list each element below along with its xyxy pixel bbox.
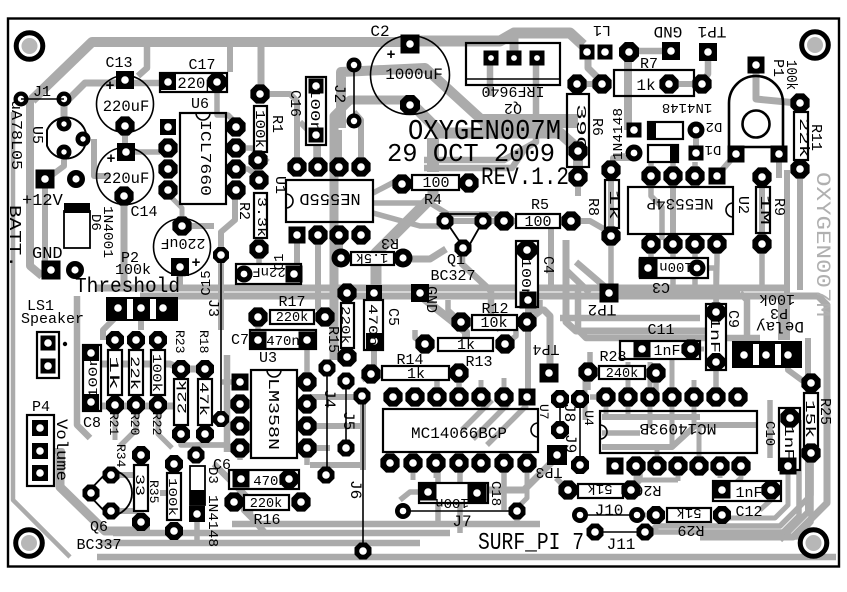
svg-text:R11: R11: [807, 124, 824, 151]
wire: [177, 271, 183, 287]
wire: [525, 304, 531, 395]
svg-text:100k: 100k: [782, 60, 799, 90]
power +12V pads: [36, 170, 86, 189]
wire: [435, 464, 441, 524]
transistor Q2 IRF9640: [466, 43, 560, 116]
wire: [304, 448, 310, 465]
wire: [780, 338, 808, 540]
svg-text:REV.1.2: REV.1.2: [481, 163, 569, 192]
test point TP1: [698, 22, 727, 61]
wire: [122, 126, 128, 152]
resistor R7: [567, 56, 711, 96]
wire: [776, 154, 782, 178]
resistor R14: [361, 352, 468, 384]
test point TP3: [535, 445, 567, 480]
capacitor C4: [516, 240, 556, 309]
wire: [587, 352, 593, 370]
svg-text:C8: C8: [83, 415, 101, 432]
wire: [487, 405, 527, 445]
svg-text:Q6: Q6: [90, 519, 108, 536]
IC U3 LM358N: [230, 350, 316, 458]
resistor R11: [790, 93, 824, 178]
wire: [760, 490, 771, 510]
svg-text:100n: 100n: [659, 258, 693, 274]
svg-text:1N4001: 1N4001: [99, 206, 115, 258]
svg-text:TP1: TP1: [698, 22, 727, 40]
wire: [113, 530, 450, 537]
svg-text:SURF_PI 7: SURF_PI 7: [478, 530, 584, 557]
wire: [479, 380, 484, 395]
resistor R4: [392, 173, 478, 209]
svg-text:TP2: TP2: [588, 300, 617, 318]
wire: [437, 133, 578, 149]
wire: [113, 412, 118, 440]
wire: [692, 400, 697, 424]
wire: [713, 362, 719, 390]
resistor R21: [106, 331, 124, 436]
svg-text:Speaker: Speaker: [21, 311, 84, 328]
resistor R5: [494, 197, 580, 231]
jumper J2: [330, 58, 362, 129]
wire: [502, 378, 507, 395]
svg-text:J10: J10: [595, 502, 624, 520]
wire: [670, 360, 675, 445]
wire: [97, 364, 205, 369]
svg-text:C11: C11: [647, 322, 674, 339]
svg-text:3.3k: 3.3k: [254, 197, 269, 237]
svg-text:GND: GND: [422, 286, 439, 313]
svg-text:MC14093B: MC14093B: [640, 419, 717, 437]
svg-text:U3: U3: [259, 350, 277, 367]
resistor R9: [752, 167, 787, 253]
wire: [718, 466, 723, 478]
wire: [767, 400, 773, 458]
svg-text:51k: 51k: [587, 480, 612, 496]
wire: [307, 423, 360, 429]
jumper J6: [346, 388, 372, 560]
wire: [336, 130, 342, 165]
wire: [138, 522, 144, 533]
svg-text:R29: R29: [677, 521, 704, 538]
node GND (top): [654, 22, 683, 60]
wire: [473, 403, 509, 439]
resistor R28: [578, 349, 665, 383]
svg-text:1k: 1k: [407, 366, 425, 383]
svg-text:100: 100: [524, 214, 551, 231]
svg-text:1.5k: 1.5k: [356, 249, 388, 264]
wire: [670, 160, 676, 176]
wire: [412, 249, 446, 259]
wire: [585, 373, 591, 390]
resistor R34 label: [113, 444, 128, 468]
regulator U5 value uA78L05: [7, 100, 24, 170]
svg-text:J11: J11: [607, 536, 636, 554]
wire: [697, 268, 716, 290]
wire: [138, 40, 147, 76]
wire: [648, 160, 654, 176]
jumper J3: [204, 247, 229, 427]
wire: [609, 290, 740, 297]
capacitor C3: [639, 258, 709, 295]
jumper J11: [587, 524, 654, 555]
wire: [577, 81, 605, 87]
transistor Q6 BC337: [76, 467, 132, 555]
svg-text:R1: R1: [268, 115, 285, 133]
svg-text:1N4148: 1N4148: [204, 495, 220, 547]
wire: [77, 296, 90, 438]
wire: [602, 425, 756, 447]
svg-text:uA78L05: uA78L05: [7, 100, 24, 170]
capacitor C6: [213, 457, 299, 490]
svg-text:R20: R20: [127, 412, 142, 435]
wire: [232, 521, 540, 528]
wire: [573, 151, 583, 177]
svg-text:1N4148: 1N4148: [662, 99, 712, 115]
wire: [52, 152, 64, 175]
rev REV.1.2: [481, 163, 569, 192]
svg-text:J6: J6: [346, 480, 364, 499]
wire: [256, 249, 262, 266]
resistor R1: [248, 84, 285, 169]
wire: [648, 362, 653, 390]
resistor R29 (51k): [647, 504, 731, 538]
wire: [415, 330, 425, 344]
wire: [487, 62, 494, 96]
wire: [400, 492, 428, 500]
diode label 1N4148: [611, 108, 627, 160]
wire: [48, 451, 62, 465]
wire: [722, 154, 736, 180]
capacitor C1: [236, 254, 303, 284]
wire: [64, 83, 125, 120]
resistor R15: [324, 283, 357, 366]
resistor R23: [172, 330, 190, 443]
capacitor C12: [713, 480, 781, 521]
diode D6 1N4001: [64, 203, 115, 258]
svg-text:C3: C3: [652, 278, 670, 295]
wire: [91, 403, 178, 410]
wire: [517, 464, 527, 508]
capacitor C2: [370, 23, 449, 115]
wire: [310, 394, 362, 400]
wire: [171, 531, 177, 543]
jumper J10: [572, 502, 645, 523]
wire: [255, 317, 261, 338]
title SURF_PI 7: [478, 530, 584, 557]
svg-text:C12: C12: [735, 504, 762, 521]
svg-text:220k: 220k: [276, 311, 308, 326]
wire: [566, 270, 590, 293]
wire: [692, 162, 698, 176]
wire: [94, 139, 110, 176]
wire: [30, 97, 42, 276]
resistor R35 (33): [132, 446, 161, 531]
capacitor C8: [83, 345, 101, 432]
wire: [583, 380, 588, 420]
wire: [566, 240, 716, 356]
wire: [424, 150, 524, 168]
wire: [604, 400, 609, 420]
svg-text:J7: J7: [452, 513, 471, 531]
wire: [135, 149, 160, 155]
wire: [236, 148, 268, 162]
svg-text:1nF: 1nF: [780, 425, 795, 460]
wire: [656, 453, 811, 526]
svg-text:1k: 1k: [605, 190, 621, 220]
svg-text:U1: U1: [271, 176, 288, 194]
svg-text:+: +: [105, 78, 114, 95]
svg-text:MC14066BCP: MC14066BCP: [411, 425, 507, 443]
capacitor C5: [364, 285, 401, 350]
svg-text:J1: J1: [33, 84, 51, 101]
wire: [510, 36, 519, 59]
wire: [60, 450, 150, 531]
wire: [631, 466, 640, 490]
wire: [602, 430, 640, 436]
svg-text:+: +: [386, 47, 395, 64]
wire: [376, 190, 433, 287]
svg-text:R28: R28: [599, 349, 626, 366]
svg-text:1k: 1k: [457, 337, 475, 354]
wire: [423, 298, 466, 344]
svg-text:J4: J4: [320, 389, 338, 408]
wire: [588, 52, 600, 80]
capacitor C14: [97, 143, 158, 221]
label P2 100k Threshold: [75, 250, 180, 299]
wire: [505, 328, 516, 344]
wire: [111, 462, 141, 475]
wire: [138, 315, 144, 330]
wire: [371, 344, 377, 370]
wire: [181, 434, 227, 445]
wire: [548, 228, 554, 290]
test point TP4: [532, 340, 559, 383]
svg-text:R18: R18: [196, 330, 211, 353]
svg-text:C18: C18: [487, 481, 503, 506]
resistor R17: [248, 294, 334, 327]
wire: [121, 196, 128, 288]
svg-text:15k: 15k: [801, 400, 817, 438]
wire: [227, 42, 233, 72]
mounting hole 3: [16, 530, 43, 557]
capacitor C11: [620, 322, 701, 360]
wire: [527, 300, 540, 322]
svg-text:TP3: TP3: [535, 463, 562, 480]
capacitor C16: [286, 77, 326, 145]
wire: [170, 196, 182, 226]
svg-text:R13: R13: [465, 354, 492, 371]
wire: [373, 180, 402, 193]
svg-text:C1: C1: [272, 254, 288, 271]
svg-text:R4: R4: [424, 192, 442, 209]
wire: [608, 176, 614, 232]
wire: [556, 478, 568, 490]
svg-text:47k: 47k: [196, 382, 211, 416]
IC U6 ICL7660: [158, 96, 245, 204]
resistor R3: [332, 234, 413, 268]
svg-text:LM358N: LM358N: [264, 378, 281, 450]
wire: [676, 466, 681, 481]
IC U4 MC14093B: [581, 387, 757, 475]
mounting hole 1: [16, 33, 43, 60]
resistor R22: [149, 331, 167, 435]
wire: [32, 42, 415, 100]
wire: [13, 112, 70, 557]
svg-text:100n: 100n: [86, 356, 101, 398]
svg-text:C15: C15: [199, 270, 215, 295]
wire: [304, 342, 310, 378]
wire: [626, 362, 631, 415]
wire: [224, 355, 231, 452]
svg-text:1N4148: 1N4148: [611, 108, 627, 160]
svg-text:R23: R23: [172, 330, 187, 353]
wire: [217, 86, 236, 123]
wire: [360, 397, 366, 470]
wire: [445, 218, 516, 224]
wire: [42, 188, 48, 262]
IC U2 NE5534P: [628, 166, 751, 253]
wire: [373, 213, 440, 226]
wire: [294, 240, 300, 266]
svg-text:U4: U4: [581, 410, 596, 426]
svg-text:1nF: 1nF: [735, 485, 762, 502]
svg-text:U2: U2: [734, 196, 751, 214]
wire: [120, 412, 136, 446]
svg-text:R22: R22: [149, 412, 164, 435]
jumper J5: [338, 373, 358, 457]
wire: [265, 94, 297, 165]
wire: [89, 357, 94, 398]
wire: [784, 170, 790, 340]
diode D2 1N4148: [627, 99, 723, 139]
connector P4 (Volume): [27, 399, 54, 486]
svg-text:100n: 100n: [306, 87, 321, 133]
wire: [140, 296, 827, 537]
svg-text:33: 33: [132, 474, 147, 496]
wire: [655, 448, 660, 462]
svg-text:C17: C17: [188, 57, 215, 74]
jumper J4: [318, 360, 339, 484]
svg-text:D1: D1: [705, 141, 722, 157]
wire: [702, 56, 708, 82]
svg-text:C7: C7: [231, 332, 249, 349]
wire: [560, 315, 700, 322]
wire: [797, 169, 803, 180]
svg-text:1k: 1k: [106, 356, 121, 390]
wire: [669, 81, 702, 87]
resistor R6: [567, 94, 605, 187]
svg-text:U7: U7: [536, 404, 551, 420]
svg-text:BC327: BC327: [430, 268, 475, 285]
svg-text:100k: 100k: [165, 478, 179, 516]
capacitor C9: [706, 302, 741, 371]
wire: [222, 379, 240, 385]
jumper J9: [561, 390, 589, 474]
wire: [228, 401, 240, 407]
svg-text:100k: 100k: [149, 354, 163, 392]
wire: [354, 112, 361, 165]
test point TP2: [588, 284, 619, 319]
power GND pads: [42, 261, 85, 280]
svg-text:R26: R26: [634, 481, 661, 498]
wire: [590, 394, 606, 400]
svg-text:C16: C16: [286, 90, 303, 117]
connector P3 (Delay): [732, 290, 804, 368]
wire: [100, 540, 420, 547]
wire: [236, 169, 262, 179]
potentiometer P1: [728, 57, 800, 163]
wire: [228, 423, 240, 429]
silkscreen OXYGEN007M (right margin, gray): [810, 172, 833, 317]
wire: [415, 107, 441, 133]
inductor L1: [580, 21, 640, 62]
wire: [480, 114, 578, 128]
svg-text:J2: J2: [330, 84, 348, 103]
mounting hole 2: [802, 32, 829, 59]
svg-text:100n: 100n: [435, 494, 469, 510]
resistor R20: [127, 331, 145, 435]
svg-text:R9: R9: [770, 198, 787, 216]
svg-text:Q1: Q1: [447, 252, 465, 269]
svg-text:GND: GND: [654, 22, 683, 40]
svg-text:R2: R2: [235, 202, 252, 220]
svg-text:C5: C5: [384, 308, 401, 326]
wire: [634, 466, 639, 484]
svg-text:470n: 470n: [266, 334, 300, 350]
wire: [640, 336, 645, 349]
wire: [310, 462, 365, 468]
title OXYGEN007M: [408, 115, 561, 148]
wire: [111, 511, 141, 524]
svg-text:R6: R6: [588, 118, 605, 136]
wire: [649, 420, 799, 532]
svg-text:220uF: 220uF: [103, 170, 150, 188]
wire: [693, 130, 699, 152]
svg-text:470n: 470n: [365, 304, 379, 346]
wire: [462, 252, 500, 330]
svg-text:22k: 22k: [175, 380, 190, 414]
svg-text:C4: C4: [539, 256, 556, 274]
svg-text:R8: R8: [584, 198, 601, 216]
resistor R16: [224, 492, 310, 529]
wire: [779, 462, 784, 470]
svg-text:P4: P4: [32, 399, 50, 416]
wire: [740, 293, 747, 341]
wire: [670, 244, 676, 288]
resistor R8: [584, 160, 621, 245]
svg-text:R16: R16: [253, 512, 280, 529]
svg-text:BC337: BC337: [76, 537, 121, 554]
wire: [608, 236, 614, 288]
svg-text:240k: 240k: [606, 367, 638, 382]
wire: [613, 153, 625, 159]
diode D3 1N4148: [188, 447, 221, 548]
wire: [797, 175, 803, 290]
svg-text:TP4: TP4: [532, 340, 559, 357]
svg-text:220k: 220k: [250, 497, 282, 512]
svg-text:IRF9640: IRF9640: [481, 82, 544, 99]
wire: [97, 554, 836, 561]
svg-text:+: +: [106, 151, 115, 168]
resistor R25: [801, 373, 833, 462]
jumper J7: [395, 503, 526, 532]
svg-text:R21: R21: [106, 412, 121, 436]
capacitor C13: [97, 55, 154, 136]
wire: [670, 176, 676, 244]
svg-text:C14: C14: [130, 204, 157, 221]
svg-text:220uF: 220uF: [160, 234, 205, 251]
capacitor C17: [160, 57, 227, 93]
